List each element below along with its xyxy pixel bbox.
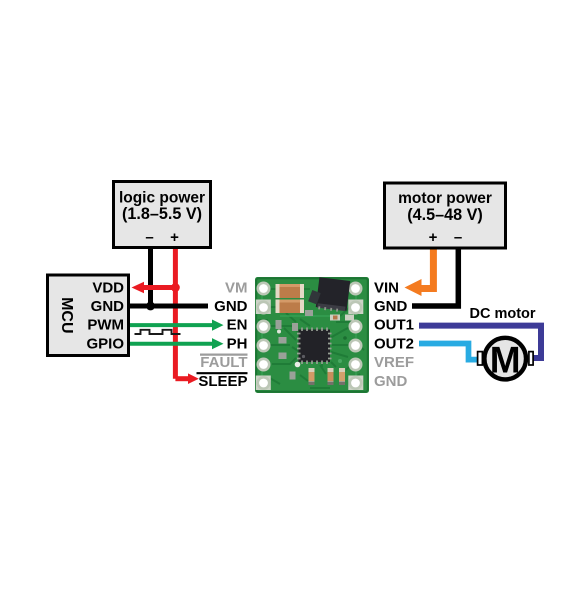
vias bbox=[295, 362, 301, 368]
svg-text:EN: EN bbox=[227, 317, 248, 334]
wire: red branch to VDD bbox=[142, 285, 175, 290]
board traces bbox=[258, 289, 364, 388]
svg-text:(4.5–48 V): (4.5–48 V) bbox=[407, 206, 483, 224]
wire: red to SLEEP bbox=[175, 376, 189, 381]
wire: PWM to EN (green) bbox=[130, 323, 214, 327]
chip: top-right dark package bbox=[316, 277, 351, 313]
svg-text:logic power: logic power bbox=[119, 190, 205, 207]
wire: GND rail from MCU to board GND (black) bbox=[130, 304, 208, 309]
holes left column bbox=[258, 283, 269, 389]
svg-text:OUT1: OUT1 bbox=[374, 317, 414, 334]
arrowhead: orange into VIN bbox=[405, 279, 422, 296]
capacitor C1 bbox=[276, 284, 305, 298]
svg-text:GPIO: GPIO bbox=[86, 335, 124, 352]
resistor R1 bbox=[309, 368, 315, 385]
arrowhead: red into VDD bbox=[132, 282, 145, 294]
motor: left terminal tab bbox=[478, 352, 483, 365]
board: DRV8876 carrier PCB bbox=[255, 277, 369, 393]
svg-text:GND: GND bbox=[374, 373, 408, 390]
svg-text:+: + bbox=[170, 229, 179, 246]
svg-text:–: – bbox=[145, 229, 153, 246]
small parts below chip bbox=[330, 315, 340, 321]
svg-text:VREF: VREF bbox=[374, 354, 414, 371]
arrowhead: red into SLEEP bbox=[188, 373, 199, 384]
svg-text:GND: GND bbox=[374, 298, 408, 315]
symbol: PWM square wave bbox=[135, 330, 181, 334]
wire: logic power minus to GND rail (black) bbox=[148, 249, 153, 306]
svg-text:DC motor: DC motor bbox=[469, 306, 535, 322]
svg-text:OUT2: OUT2 bbox=[374, 335, 414, 352]
box: motor power supply bbox=[385, 183, 506, 248]
holes right column bbox=[350, 283, 361, 389]
svg-text:VDD: VDD bbox=[92, 279, 124, 296]
svg-text:MCU: MCU bbox=[58, 297, 75, 333]
arrowhead: green into PH bbox=[212, 338, 224, 349]
svg-text:VM: VM bbox=[225, 279, 248, 296]
arrowhead: green into EN bbox=[212, 320, 224, 331]
wire: GPIO to PH (green) bbox=[130, 342, 214, 346]
svg-text:PWM: PWM bbox=[87, 317, 124, 334]
small passives bbox=[276, 310, 314, 380]
capacitor C2 bbox=[276, 300, 305, 314]
junction: red VDD node bbox=[171, 283, 180, 292]
svg-text:–: – bbox=[454, 229, 462, 246]
svg-text:GND: GND bbox=[91, 298, 125, 315]
wire: OUT2 to motor left terminal (cyan) bbox=[419, 344, 478, 360]
svg-text:VIN: VIN bbox=[374, 279, 399, 296]
svg-text:(1.8–5.5 V): (1.8–5.5 V) bbox=[122, 205, 202, 223]
wire: OUT1 to motor right terminal (navy) bbox=[419, 326, 541, 358]
wire: motor power plus to VIN (orange) bbox=[421, 249, 433, 289]
pad squares bbox=[256, 300, 271, 315]
svg-text:SLEEP: SLEEP bbox=[198, 373, 247, 390]
motor: right terminal tab bbox=[529, 352, 533, 365]
junction: black GND node bbox=[146, 302, 155, 311]
box: MCU bbox=[48, 275, 129, 356]
svg-text:M: M bbox=[490, 339, 521, 380]
svg-text:PH: PH bbox=[227, 335, 248, 352]
svg-text:FAULT: FAULT bbox=[200, 354, 247, 371]
box: logic power supply bbox=[114, 182, 211, 248]
wire: logic power plus vertical (red) bbox=[173, 249, 178, 379]
chip: center driver IC bbox=[299, 330, 331, 363]
wire: motor power minus to board GND (black) bbox=[412, 249, 458, 306]
svg-text:+: + bbox=[429, 229, 438, 246]
resistor R2 bbox=[328, 368, 334, 385]
svg-text:motor power: motor power bbox=[398, 190, 492, 207]
resistor R3 bbox=[339, 368, 345, 385]
svg-text:GND: GND bbox=[214, 298, 248, 315]
motor M1 body bbox=[484, 338, 526, 380]
